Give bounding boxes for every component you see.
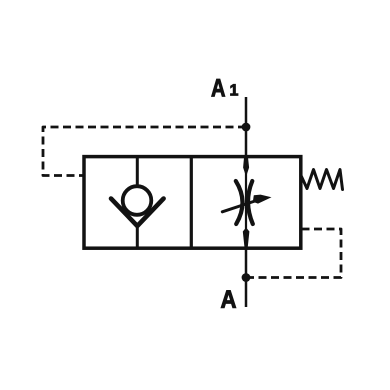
node A1 junction xyxy=(242,123,251,132)
throttle vertical line xyxy=(245,156,247,248)
pilot line (dashed) from node A1 to left side of valve body xyxy=(43,127,246,176)
adjustment arrow head xyxy=(253,195,272,204)
svg-text:1: 1 xyxy=(229,82,238,99)
valve body divider xyxy=(190,157,193,249)
check valve seat (V) xyxy=(111,199,164,227)
port line A xyxy=(245,248,248,307)
adjustment arrow tail xyxy=(222,201,255,212)
svg-text:A: A xyxy=(221,286,237,314)
throttle flow arrow bottom (pointing down) xyxy=(243,228,250,250)
check valve ball xyxy=(123,186,152,215)
node A junction xyxy=(242,273,251,282)
valve body (outer rectangle) xyxy=(84,157,301,249)
svg-text:A: A xyxy=(211,74,226,102)
port line A1 xyxy=(245,97,248,156)
check valve stem top xyxy=(136,156,139,187)
throttle venturi curve right xyxy=(248,181,253,224)
throttle venturi curve left xyxy=(236,181,243,224)
spring xyxy=(301,170,343,190)
throttle flow arrow top (pointing down) xyxy=(243,156,249,177)
pilot line (dashed) from right side of valve body to node A xyxy=(246,229,341,278)
label A1 xyxy=(211,74,239,102)
check valve stem bottom xyxy=(136,225,139,248)
